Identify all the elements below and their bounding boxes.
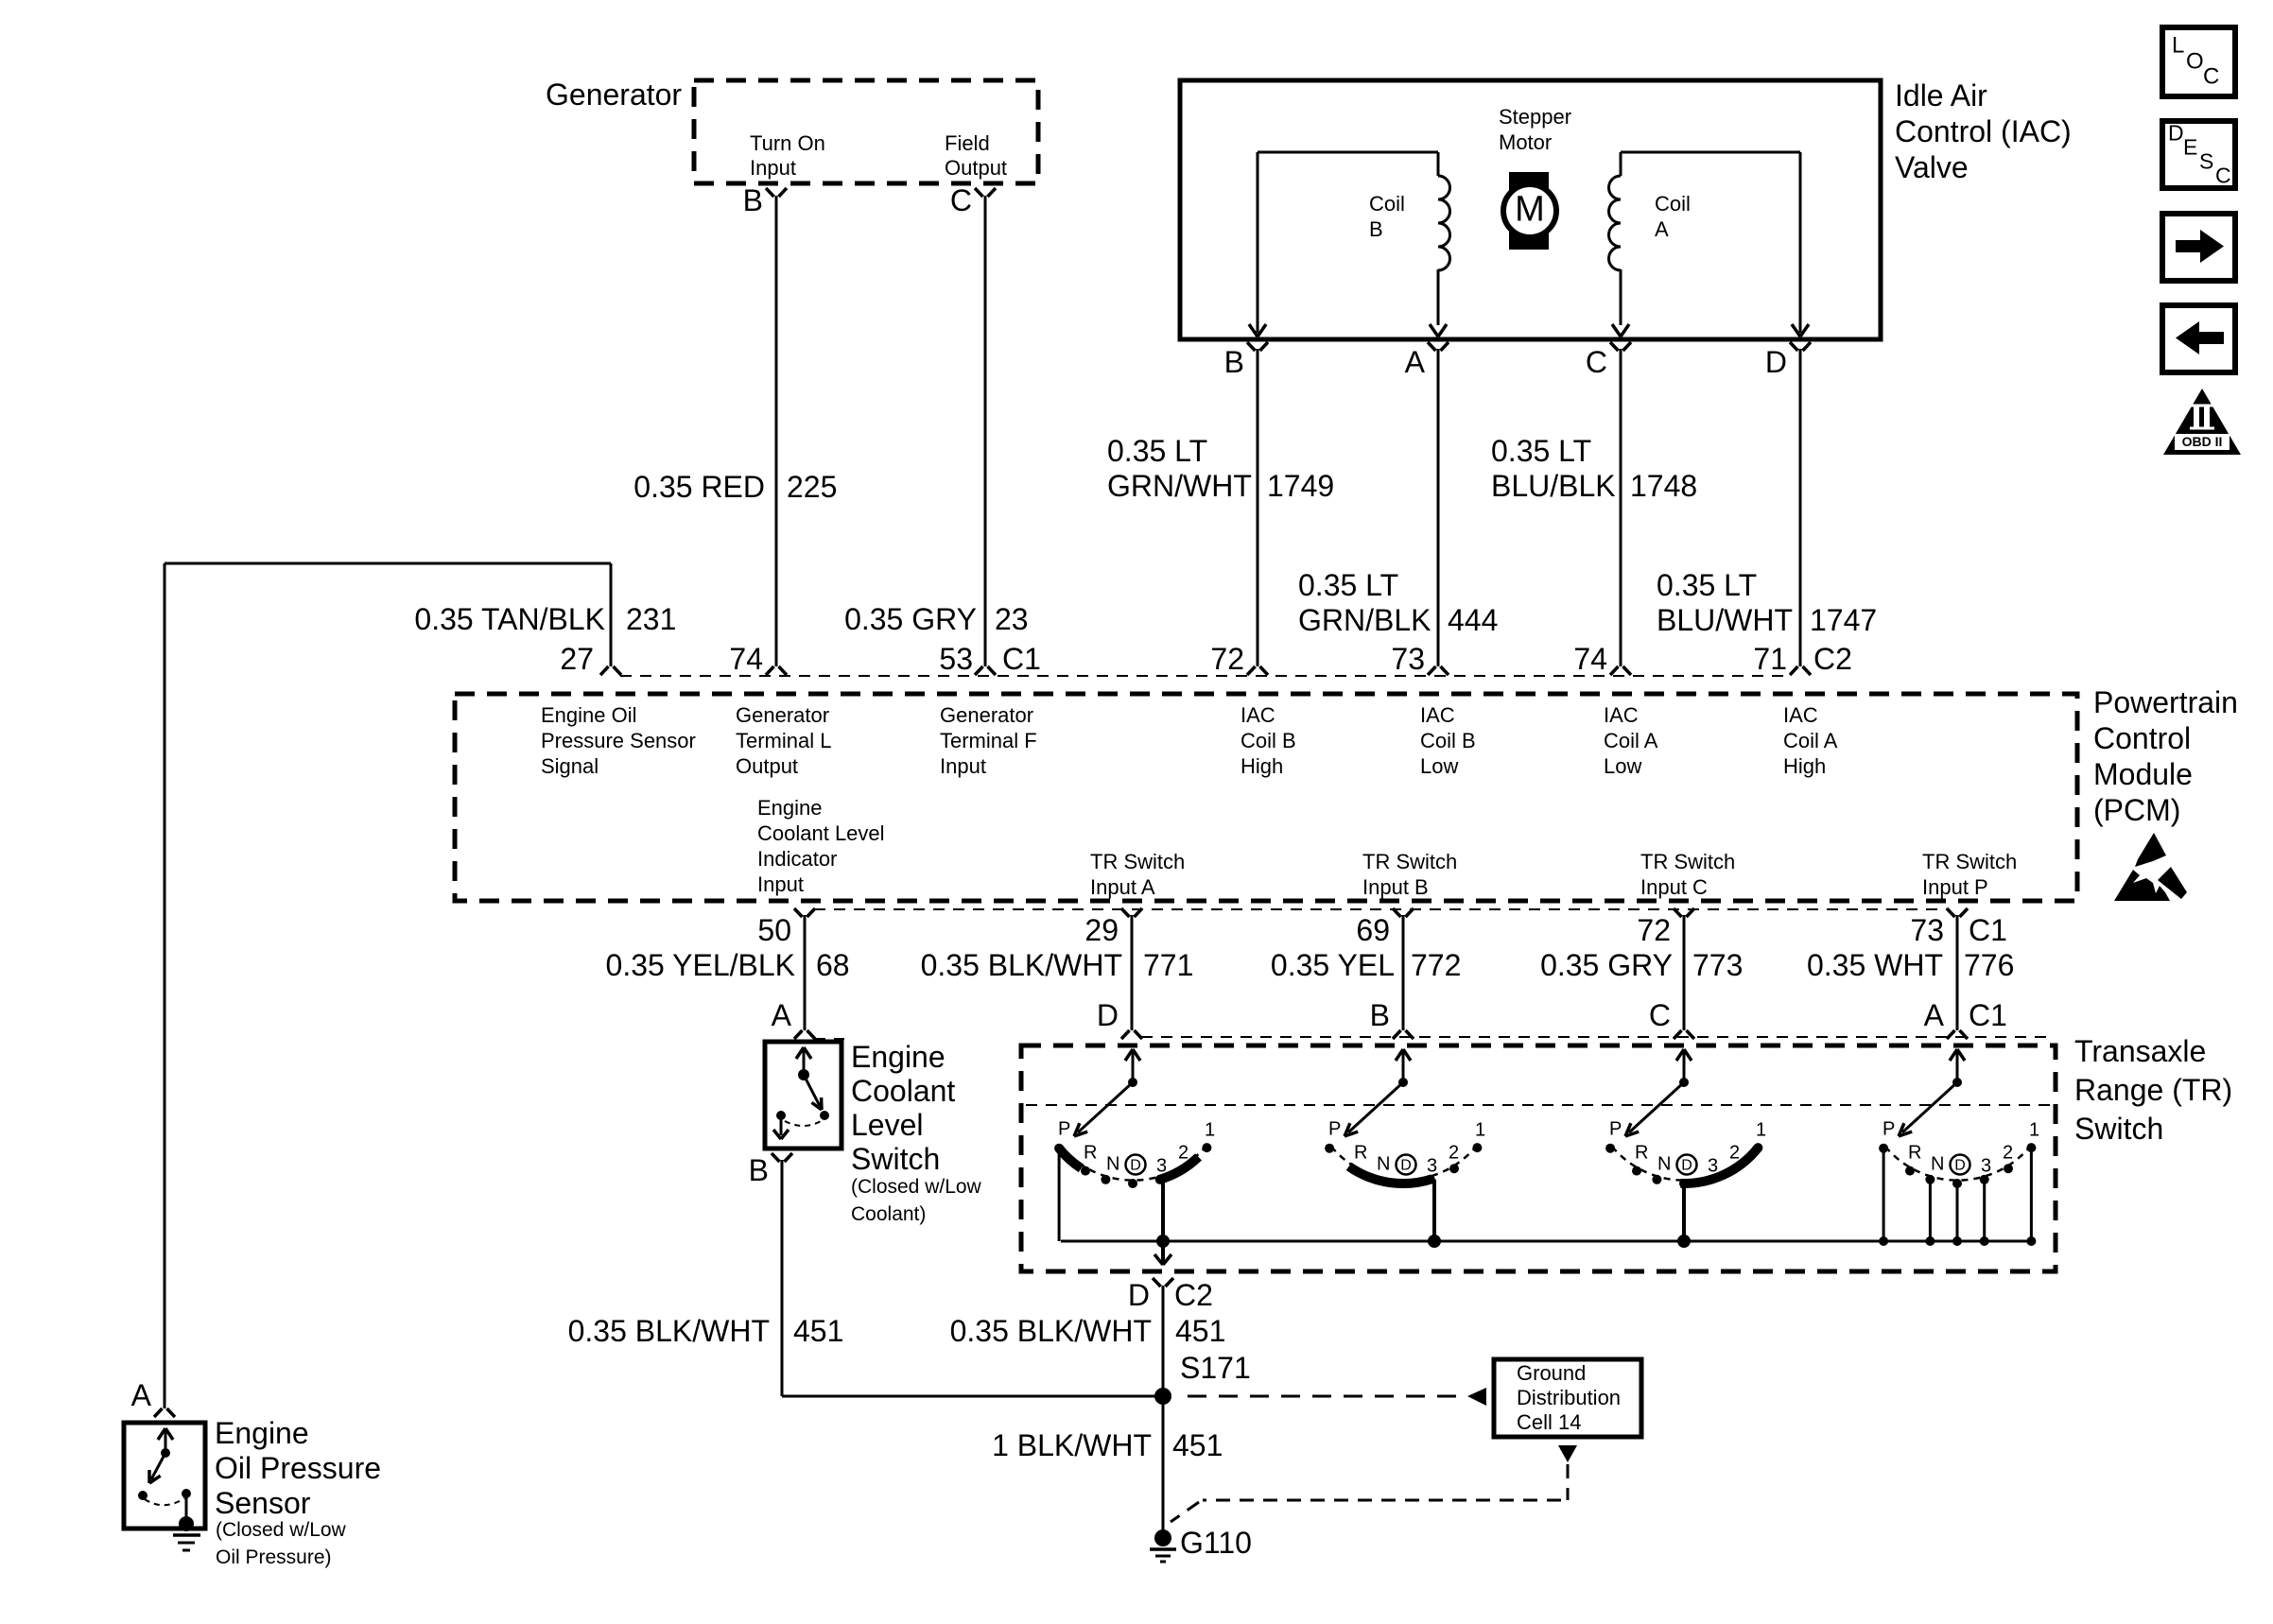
label 0.35 RED 225 [633,470,837,504]
svg-text:2: 2 [2003,1142,2013,1163]
splice S171 label [1180,1351,1251,1385]
generator terminal C connector [975,188,996,197]
svg-text:C1: C1 [1002,642,1041,676]
ground distribution cell label [1517,1361,1621,1434]
PCM pin 72b connector [1674,908,1694,1030]
svg-text:74: 74 [729,642,763,676]
TR inner dashed line [1026,1104,2051,1106]
label 0.35 BLK/WHT 451 left [568,1314,844,1348]
svg-text:776: 776 [1964,948,2014,982]
label 0.35 GRY 773 [1540,948,1743,982]
PCM connector C1 bottom label [1969,913,2007,947]
svg-text:C2: C2 [1174,1278,1213,1312]
PCM pin 53 number [939,642,973,676]
svg-text:451: 451 [1172,1428,1223,1462]
PCM pin 72 connector [1247,666,1268,675]
PCM label engine coolant level indicator input [757,796,885,896]
ground distribution arrowhead [1467,1388,1486,1406]
transaxle range switch label [2074,1034,2232,1146]
S171 dashed link to ground distribution [1188,1395,1464,1398]
TR terminal C connector [1674,1030,1694,1039]
wire 444 LT GRN/BLK [1437,349,1440,666]
generator terminal B label [743,183,763,217]
svg-text:B: B [749,1153,769,1187]
generator box (dashed) [694,80,1038,183]
svg-text:0.35 BLK/WHT: 0.35 BLK/WHT [950,1314,1152,1348]
svg-text:E: E [2183,135,2197,160]
svg-text:R: R [1635,1142,1648,1163]
svg-text:2: 2 [1729,1142,1740,1163]
coolant connector line (thin dashed) [814,1038,844,1040]
PCM pin 73 number [1391,642,1425,676]
PCM label IAC coil A high [1783,703,1838,778]
generator Turn On Input label [750,131,825,180]
DESC icon [2162,121,2235,188]
IAC terminal A letter [1405,345,1426,379]
svg-text:23: 23 [995,602,1029,636]
svg-text:R: R [1908,1142,1921,1163]
svg-text:225: 225 [787,470,837,504]
PCM label IAC coil A low [1604,703,1658,778]
TR output bus [1061,1240,2030,1243]
svg-text:0.35 TAN/BLK: 0.35 TAN/BLK [414,602,605,636]
IAC terminal D connector [1790,342,1811,351]
TR connector line (thin dashed) [1141,1036,2047,1038]
coolant switch terminal B connector [772,1153,792,1162]
arrow-right icon [2162,214,2235,281]
PCM pin 27 number [560,642,594,676]
svg-text:0.35 YEL/BLK: 0.35 YEL/BLK [606,948,795,982]
TR terminal B letter [1370,998,1390,1032]
TR output connector D C2 [1153,1278,1173,1287]
stepper motor M1 [1503,172,1556,250]
svg-text:P: P [1058,1118,1070,1139]
PCM connector C1 top label [1002,642,1041,676]
PCM pin 73 connector [1428,666,1449,675]
engine oil pressure sensor box [124,1423,205,1529]
wire 1749 LT GRN/WHT [1257,349,1259,666]
svg-text:1: 1 [2029,1119,2039,1140]
label 0.35 BLK/WHT 771 [921,948,1194,982]
stepper motor label [1499,105,1571,154]
svg-text:B: B [1224,345,1244,379]
label 0.35 YEL/BLK 68 [606,948,850,982]
label 0.35 LT BLU/BLK 1748 [1491,434,1697,503]
PCM label IAC coil B low [1420,703,1476,778]
PCM name label [2093,685,2238,827]
generator terminal C label [950,183,972,217]
svg-text:50: 50 [757,913,791,947]
TR connector C1 label [1969,998,2007,1032]
label 0.35 TAN/BLK 231 [414,602,676,636]
svg-text:1: 1 [1756,1119,1766,1140]
svg-text:0.35 YEL: 0.35 YEL [1271,948,1395,982]
svg-text:OBD II: OBD II [2182,434,2223,449]
PCM connector C2 top label [1813,642,1852,676]
svg-text:72: 72 [1637,913,1671,947]
svg-text:B: B [1370,998,1390,1032]
svg-text:73: 73 [1910,913,1944,947]
TR rotary switch D (input D) [1054,1049,1215,1248]
engine oil pressure sensor label [215,1416,381,1520]
wire 451 BLK/WHT from TR [1162,1286,1165,1538]
svg-text:2: 2 [1178,1142,1189,1163]
PCM pin 74 connector [766,666,787,675]
label 0.35 WHT 776 [1807,948,2014,982]
coolant switch terminal A letter [772,998,792,1032]
svg-text:0.35 WHT: 0.35 WHT [1807,948,1943,982]
svg-text:2: 2 [1449,1142,1459,1163]
coil B label [1369,192,1405,241]
PCM label generator terminal F input [940,703,1037,778]
splice S171 [1154,1388,1171,1405]
TR terminal A letter [1924,998,1945,1032]
svg-text:D: D [1097,998,1119,1032]
label 0.35 GRY 23 [844,602,1029,636]
svg-text:68: 68 [816,948,850,982]
svg-text:N: N [1931,1153,1944,1174]
ground distribution dashed return [1171,1464,1568,1522]
svg-text:D: D [1400,1158,1412,1174]
engine coolant level switch box [765,1042,842,1149]
IAC terminal C arrow [1612,324,1629,337]
svg-text:G110: G110 [1180,1526,1252,1560]
PCM pin 71 connector [1790,666,1811,675]
PCM pin 50 connector [794,908,815,1030]
svg-text:S: S [2199,149,2213,174]
TR terminal D letter [1097,998,1119,1032]
svg-text:73: 73 [1391,642,1425,676]
svg-text:Generator: Generator [546,78,682,112]
label 0.35 BLK/WHT 451 mid [950,1314,1226,1348]
TR output arrow [1154,1241,1171,1265]
svg-text:N: N [1377,1153,1390,1174]
TR terminal B connector [1393,1030,1414,1039]
svg-text:451: 451 [1175,1314,1225,1348]
PCM box (dashed) [455,694,2077,901]
IAC terminal B letter [1224,345,1244,379]
svg-text:27: 27 [560,642,594,676]
svg-text:69: 69 [1356,913,1390,947]
PCM pin 53 connector [975,666,996,675]
svg-text:D: D [1765,345,1787,379]
IAC terminal A connector [1428,342,1449,351]
transaxle range switch box (dashed) [1021,1045,2056,1271]
oil pressure sensor contact arm [138,1428,191,1520]
svg-text:1 BLK/WHT: 1 BLK/WHT [992,1428,1152,1462]
svg-text:1747: 1747 [1810,603,1877,637]
label 0.35 LT GRN/BLK 444 [1298,568,1498,637]
svg-text:1: 1 [1475,1119,1485,1140]
TR rotary switch B (input B) [1325,1049,1485,1248]
svg-text:R: R [1354,1142,1367,1163]
svg-text:3: 3 [1708,1155,1718,1176]
OBD II triangle icon [2163,389,2241,455]
TR terminal A connector [1947,1030,1968,1039]
PCM pin 69 connector [1393,908,1414,1030]
PCM pin 73b number [1910,913,1944,947]
idle air control valve label [1895,78,2072,184]
LOC icon [2162,27,2235,96]
svg-text:C1: C1 [1969,913,2007,947]
svg-text:0.35 RED: 0.35 RED [633,470,765,504]
svg-text:D: D [1128,1278,1150,1312]
svg-text:72: 72 [1210,642,1244,676]
IAC terminal D arrow [1792,324,1809,337]
svg-text:N: N [1657,1153,1671,1174]
svg-text:772: 772 [1411,948,1461,982]
wire 225 RED (generator L) [775,196,778,666]
svg-text:P: P [1609,1118,1622,1139]
TR output terminal D letter [1128,1278,1150,1312]
PCM label TR switch input P [1922,850,2017,899]
svg-text:P: P [1328,1118,1341,1139]
svg-text:C2: C2 [1813,642,1852,676]
wire 23 GRY (generator F) [984,196,987,666]
wire IAC inner loop A [1621,152,1800,333]
svg-text:R: R [1084,1142,1097,1163]
svg-text:N: N [1106,1153,1119,1174]
arrow-left icon [2162,305,2235,372]
svg-text:1749: 1749 [1267,469,1334,503]
wire IAC inner loop B [1258,152,1438,333]
TR terminal D connector [1121,1030,1142,1039]
coil A (inductor) [1609,176,1622,270]
PCM pin 29 connector [1121,908,1142,1030]
svg-text:S171: S171 [1180,1351,1251,1385]
PCM label generator terminal L output [736,703,831,778]
svg-text:L: L [2172,32,2184,58]
label 0.35 LT GRN/WHT 1749 [1107,434,1334,503]
wire 1747 LT BLU/WHT [1799,349,1802,666]
label 0.35 LT BLU/WHT 1747 [1657,568,1877,637]
svg-text:444: 444 [1448,603,1498,637]
IAC terminal B connector [1247,342,1268,351]
generator label [546,78,682,112]
oil pressure sensor internal ground [173,1516,200,1550]
svg-text:29: 29 [1084,913,1119,947]
svg-text:C: C [1586,345,1607,379]
wire 1748 LT BLU/BLK [1620,349,1622,666]
TR rotary switch P (input P) [1879,1049,2039,1246]
svg-text:D: D [1954,1158,1966,1174]
IAC terminal B arrow [1249,324,1266,337]
generator Field Output label [945,131,1007,180]
coil B (inductor) [1438,176,1450,270]
TR rotary switch C (input C) [1605,1049,1766,1248]
svg-text:3: 3 [1427,1155,1437,1176]
engine coolant level switch label [851,1040,955,1176]
svg-text:D: D [1130,1158,1141,1174]
svg-text:3: 3 [1156,1155,1167,1176]
svg-text:M: M [1515,189,1545,229]
coolant switch note [851,1176,982,1225]
svg-text:P: P [1883,1118,1895,1139]
svg-text:53: 53 [939,642,973,676]
ground distribution down triangle [1558,1445,1577,1462]
coolant switch terminal A connector [794,1030,815,1039]
PCM pin 27 connector [600,666,621,675]
PCM pin 74b connector [1610,666,1631,675]
oil pressure sensor terminal A letter [131,1378,152,1412]
svg-text:A: A [131,1378,152,1412]
svg-text:3: 3 [1981,1155,1991,1176]
PCM pin 72 number [1210,642,1244,676]
label 1 BLK/WHT 451 [992,1428,1223,1462]
coolant switch terminal B letter [749,1153,769,1187]
svg-text:D: D [1681,1158,1692,1174]
svg-text:0.35 BLK/WHT: 0.35 BLK/WHT [568,1314,770,1348]
coil A label [1655,192,1691,241]
PCM pin 69 number [1356,913,1390,947]
generator terminal B connector [766,188,787,197]
svg-text:1748: 1748 [1630,469,1697,503]
svg-text:0.35 GRY: 0.35 GRY [1540,948,1673,982]
ground G110 label [1180,1526,1252,1560]
svg-text:771: 771 [1143,948,1193,982]
PCM pin 74b number [1573,642,1607,676]
PCM label TR switch input B [1362,850,1457,899]
idle air control valve box [1180,80,1881,339]
svg-text:B: B [743,183,763,217]
PCM label TR switch input C [1640,850,1735,899]
PCM pin 50 number [757,913,791,947]
svg-text:C: C [950,183,972,217]
svg-text:0.35 BLK/WHT: 0.35 BLK/WHT [921,948,1122,982]
svg-text:A: A [1924,998,1945,1032]
svg-text:1: 1 [1205,1119,1215,1140]
svg-text:231: 231 [626,602,676,636]
TR terminal C letter [1649,998,1671,1032]
ESD sensitive device symbol [2114,833,2187,901]
IAC terminal C letter [1586,345,1607,379]
PCM pin 72b number [1637,913,1671,947]
svg-text:451: 451 [793,1314,843,1348]
svg-text:C: C [2215,164,2231,188]
PCM label engine oil pressure sensor signal [541,703,696,778]
PCM pin 73b connector [1947,908,1968,1030]
PCM pin 29 number [1084,913,1119,947]
label 0.35 YEL 772 [1271,948,1461,982]
IAC terminal A arrow [1430,324,1447,337]
svg-text:D: D [2168,121,2184,146]
PCM top connector line (thin dashed) [620,675,1791,677]
svg-text:A: A [772,998,792,1032]
ground distribution cell box [1494,1359,1641,1437]
wire 231 TAN/BLK (sensor signal) [165,563,611,1408]
PCM pin 71 number [1753,642,1787,676]
svg-text:74: 74 [1573,642,1607,676]
coolant switch contact arm [773,1047,829,1139]
IAC terminal C connector [1610,342,1631,351]
ground G110 [1150,1529,1176,1562]
svg-text:C: C [2203,63,2219,89]
PCM bottom connector line (thin dashed) [814,908,1948,910]
svg-text:O: O [2186,48,2204,74]
svg-text:773: 773 [1692,948,1743,982]
svg-text:71: 71 [1753,642,1787,676]
TR output C2 label [1174,1278,1213,1312]
oil pressure sensor terminal A connector [154,1408,175,1417]
oil pressure sensor note [216,1519,347,1568]
PCM pin 74 number [729,642,763,676]
IAC terminal D letter [1765,345,1787,379]
svg-text:C: C [1649,998,1671,1032]
PCM label IAC coil B high [1241,703,1296,778]
PCM label TR switch input A [1090,850,1185,899]
svg-text:C1: C1 [1969,998,2007,1032]
wire 451 BLK/WHT left [782,1160,1155,1396]
svg-text:A: A [1405,345,1426,379]
svg-text:0.35 GRY: 0.35 GRY [844,602,977,636]
